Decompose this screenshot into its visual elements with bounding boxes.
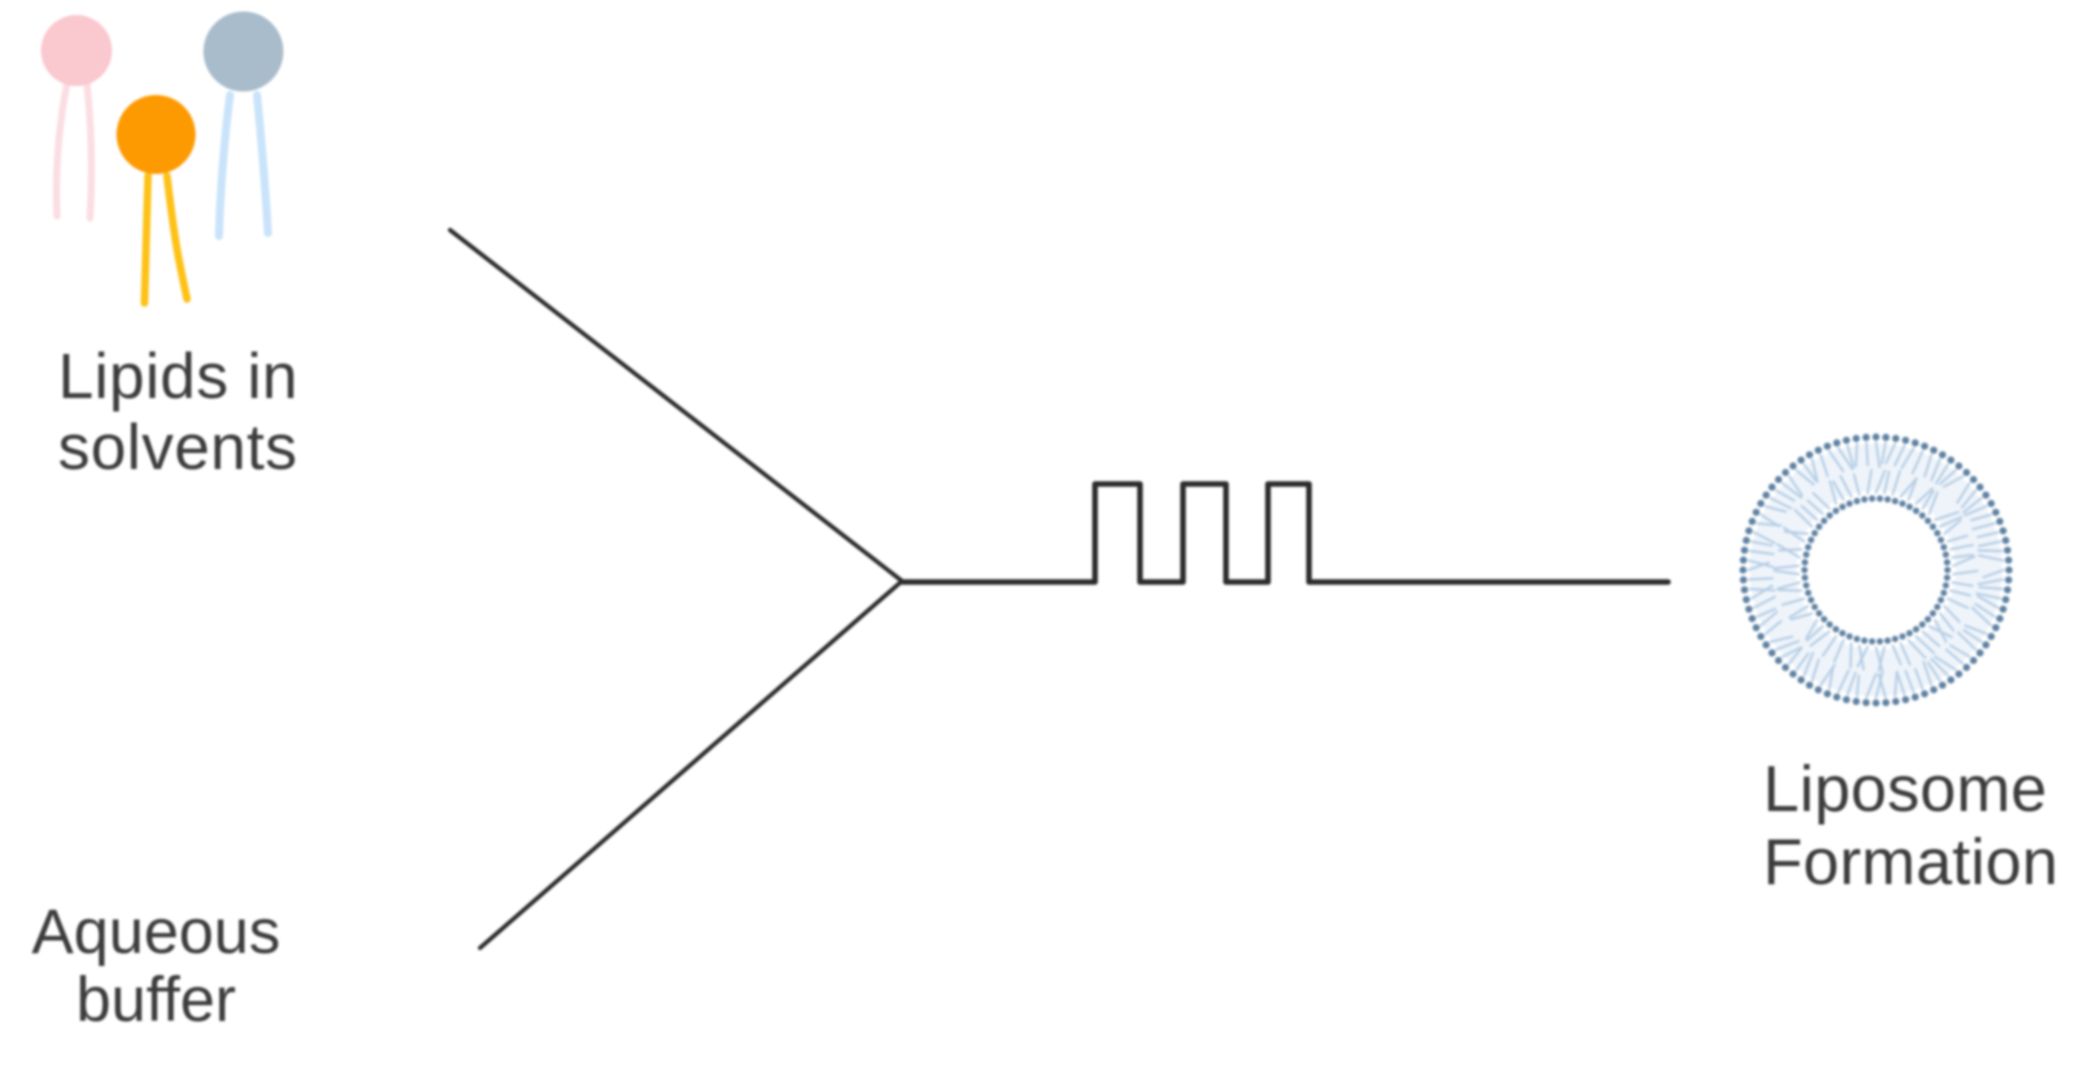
label Aqueous buffer xyxy=(32,897,281,1035)
svg-text:Formation: Formation xyxy=(1763,825,2058,898)
lipid orange P2 xyxy=(117,95,196,303)
label Liposome Formation xyxy=(1763,752,2058,898)
svg-text:buffer: buffer xyxy=(76,965,236,1035)
inlet channel bottom (buffer inlet) xyxy=(480,581,902,948)
svg-text:Aqueous: Aqueous xyxy=(32,897,281,967)
inlet channel top (lipids inlet) xyxy=(450,230,902,581)
lipid blue P3 xyxy=(203,12,283,237)
lipid pink P1 xyxy=(41,15,112,218)
liposome (bilayer vesicle) xyxy=(1739,433,2012,706)
svg-text:Lipids in: Lipids in xyxy=(58,340,298,412)
svg-text:solvents: solvents xyxy=(58,411,298,483)
mixing channel with square-wave mixer xyxy=(902,484,1668,582)
svg-text:Liposome: Liposome xyxy=(1763,752,2047,825)
label Lipids in solvents xyxy=(58,340,298,483)
